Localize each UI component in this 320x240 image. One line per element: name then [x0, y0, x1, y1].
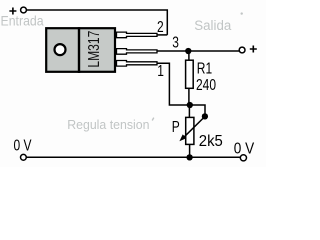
svg-text:Regula tension: Regula tension [67, 118, 149, 132]
svg-text:P: P [172, 117, 180, 135]
svg-text:0 V: 0 V [14, 136, 32, 154]
svg-text:3: 3 [172, 33, 179, 51]
svg-text:0 V: 0 V [234, 140, 254, 157]
svg-text:240: 240 [196, 75, 216, 93]
svg-text:LM317: LM317 [85, 30, 103, 67]
svg-text:2: 2 [157, 17, 164, 35]
svg-text:2k5: 2k5 [199, 133, 223, 151]
svg-text:Salida: Salida [194, 17, 231, 32]
svg-text:1: 1 [157, 61, 164, 79]
svg-text:Entrada: Entrada [1, 13, 45, 29]
